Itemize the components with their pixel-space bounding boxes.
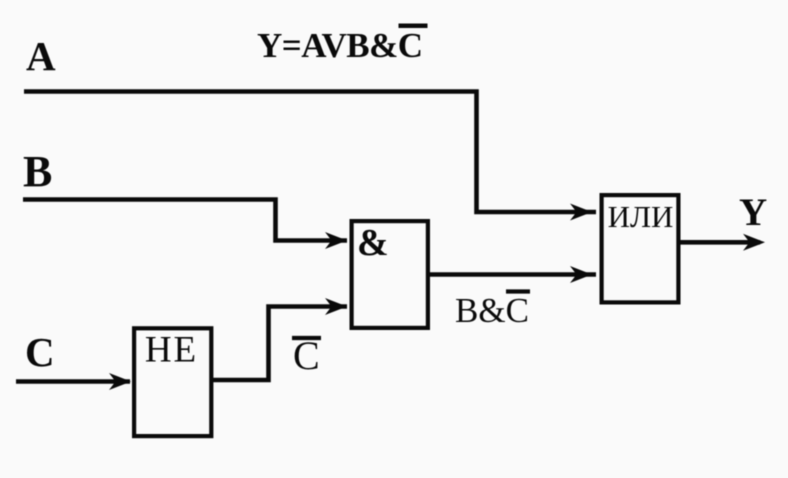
arrowhead into AND gate input 2 xyxy=(325,298,347,315)
wire C (input C to NOT gate) xyxy=(16,379,130,384)
svg-text:&: & xyxy=(357,222,389,264)
svg-text:B&C: B&C xyxy=(455,291,529,330)
wire OR gate output to Y xyxy=(680,240,760,245)
svg-text:Y=AVB&C: Y=AVB&C xyxy=(257,26,423,65)
wire AND gate output to OR gate input 2 (node B&amp;C̄) xyxy=(430,272,596,277)
label B&amp;C̄ (AND output node) xyxy=(455,291,530,330)
AND gate box & xyxy=(352,221,428,328)
arrowhead into NOT gate input xyxy=(109,373,131,390)
arrowhead into AND gate input 1 xyxy=(325,232,347,249)
wire A (input A to OR gate input 1) xyxy=(24,92,596,213)
NOT gate box НЕ xyxy=(134,328,211,436)
arrowhead into OR gate input 2 xyxy=(570,266,592,283)
svg-text:ИЛИ: ИЛИ xyxy=(608,199,674,234)
wire B (input B to AND gate input 1) xyxy=(23,200,347,241)
arrowhead output Y xyxy=(743,234,765,251)
svg-text:C: C xyxy=(25,329,55,375)
OR gate box ИЛИ xyxy=(602,195,679,302)
formula Y=A∨B&amp;C̄ xyxy=(257,26,428,65)
label C̄ (NOT C node) xyxy=(292,333,321,378)
svg-text:Y: Y xyxy=(739,191,767,234)
svg-text:НЕ: НЕ xyxy=(145,330,198,371)
svg-text:A: A xyxy=(26,33,56,79)
arrowhead into OR gate input 1 xyxy=(570,204,592,221)
wire NOT gate output to AND gate input 2 xyxy=(213,307,347,381)
svg-text:B: B xyxy=(23,147,52,196)
